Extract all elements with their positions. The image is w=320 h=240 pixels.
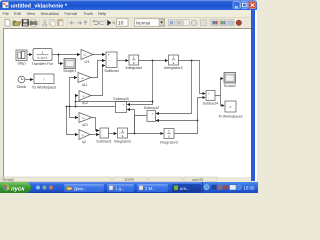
svg-text:-: - bbox=[102, 129, 103, 133]
block To Workspace bbox=[34, 74, 54, 84]
svg-text:t21: t21 bbox=[83, 54, 87, 57]
svg-text:1: 1 bbox=[133, 56, 135, 60]
svg-text:s: s bbox=[168, 134, 170, 138]
svg-text:Integrator2: Integrator2 bbox=[114, 140, 131, 144]
wire Subtract to Integrator bbox=[117, 60, 128, 62]
close button bbox=[249, 2, 256, 9]
svg-text:x: x bbox=[230, 105, 232, 109]
svg-text:+: + bbox=[123, 103, 125, 107]
new bbox=[5, 19, 10, 26]
transfer function block Transfer Fcn bbox=[33, 49, 52, 61]
normal dropdown bbox=[135, 19, 165, 26]
right icon cluster bbox=[169, 20, 175, 26]
svg-text:100%: 100% bbox=[124, 177, 135, 182]
wire bus B to q22 bbox=[67, 107, 78, 135]
scope Scope1 bbox=[64, 59, 76, 69]
svg-text:1: 1 bbox=[173, 56, 175, 60]
wire q11 to Subtract input 2 bbox=[91, 61, 105, 78]
sum block Subtract bbox=[106, 52, 117, 68]
block To Workspace1 bbox=[225, 101, 236, 112]
svg-text:untitled_vklachenie *: untitled_vklachenie * bbox=[11, 2, 68, 9]
svg-text:Help: Help bbox=[98, 11, 107, 16]
svg-text:-: - bbox=[152, 119, 153, 123]
task button 4 active bbox=[174, 186, 178, 191]
sum block Subtract2 flipped bbox=[147, 111, 156, 123]
svg-text:Format: Format bbox=[65, 11, 79, 16]
wire Subtract4 output branch to Scope2 bbox=[215, 79, 223, 96]
task button 2 bbox=[109, 186, 113, 191]
gain q21 bbox=[79, 113, 92, 123]
wire q21 to Subtract1 input 1 bbox=[92, 118, 99, 131]
scope Scope2 bbox=[224, 73, 236, 84]
svg-text:Subtract4: Subtract4 bbox=[203, 101, 218, 105]
svg-text:Subtract1: Subtract1 bbox=[96, 140, 111, 144]
stop bbox=[112, 21, 115, 24]
status bar details bbox=[1, 177, 217, 182]
svg-text:View: View bbox=[27, 11, 36, 16]
sep bbox=[67, 19, 69, 27]
tray icons bbox=[204, 185, 209, 190]
svg-text:Ready: Ready bbox=[3, 177, 15, 182]
svg-text:Subtract2: Subtract2 bbox=[144, 106, 159, 110]
gain q22 bbox=[79, 130, 90, 140]
start flag logo bbox=[3, 184, 10, 191]
svg-text:Tools: Tools bbox=[84, 11, 93, 16]
wire Clock to To Workspace bbox=[25, 79, 33, 81]
svg-text:q2: q2 bbox=[82, 140, 86, 144]
sep bbox=[105, 19, 107, 27]
wire Integrator1 output to Subtract4 input 1 bbox=[179, 61, 206, 94]
clock block Clock bbox=[18, 76, 25, 83]
nav arrows bbox=[70, 21, 75, 24]
svg-text:Integrator1: Integrator1 bbox=[164, 65, 183, 70]
quick launch icons bbox=[36, 186, 40, 190]
svg-text:Scope1: Scope1 bbox=[63, 68, 76, 73]
svg-text:1: 1 bbox=[42, 50, 44, 54]
svg-text:Integrator: Integrator bbox=[125, 65, 142, 70]
run bbox=[107, 20, 111, 26]
paste bbox=[58, 20, 63, 26]
svg-text:unt...: unt... bbox=[180, 186, 189, 191]
integrator block Integrator1 bbox=[169, 55, 179, 65]
integrator block Integrator3 bbox=[164, 129, 174, 139]
integrator block Integrator bbox=[129, 55, 139, 65]
wire Subtract3 output to left bus bbox=[67, 106, 116, 108]
svg-text:1: 1 bbox=[168, 129, 170, 133]
svg-text:2 M...: 2 M... bbox=[145, 186, 155, 191]
svg-text:q11: q11 bbox=[82, 83, 88, 87]
node junction x2d bbox=[134, 133, 136, 135]
integrator block Integrator2 bbox=[118, 128, 128, 138]
wire branch to To Workspace1 bbox=[221, 96, 225, 106]
svg-text:1 д...: 1 д... bbox=[115, 186, 124, 191]
wire bus A to q21 bbox=[70, 107, 78, 118]
gain t21 bbox=[81, 50, 93, 60]
wire x1 branch down to Subtract3 input 1 bbox=[127, 61, 152, 105]
sim time field bbox=[117, 19, 129, 26]
svg-text:Scope2: Scope2 bbox=[224, 84, 236, 88]
svg-text:пуск: пуск bbox=[11, 186, 25, 192]
wire vertical bus to q12 bbox=[76, 96, 78, 107]
task button 1 bbox=[67, 186, 73, 190]
node bus A junction bbox=[69, 106, 71, 108]
svg-text:Simulation: Simulation bbox=[41, 11, 60, 16]
sum block Subtract1 bbox=[100, 128, 109, 138]
svg-text:q21: q21 bbox=[82, 123, 88, 127]
svg-text:Transfer Fcn: Transfer Fcn bbox=[32, 61, 54, 66]
wire gain t21 to Subtract bbox=[93, 54, 105, 56]
maximize button bbox=[241, 2, 248, 9]
wire q22 to Subtract1 input 2 bbox=[90, 134, 99, 136]
node junction x2 right bbox=[197, 120, 199, 122]
svg-text:+: + bbox=[108, 53, 110, 57]
wire branch to Scope1 bbox=[59, 55, 63, 64]
sum block Subtract4 bbox=[206, 91, 215, 101]
wire Integrator2 out up to Subtract3 input 2 bbox=[127, 110, 134, 134]
svg-text:t: t bbox=[44, 77, 45, 81]
cut bbox=[44, 20, 47, 25]
taskbar details bbox=[3, 184, 255, 192]
sep bbox=[38, 19, 40, 27]
toolbar icons bbox=[5, 19, 242, 27]
gain q11 bbox=[78, 73, 91, 83]
wire Integrator3 output up to Subtract4 input 2 bbox=[174, 98, 205, 134]
menu texts bbox=[3, 11, 108, 16]
svg-text:Доку...: Доку... bbox=[74, 186, 86, 191]
svg-text:+: + bbox=[208, 92, 210, 96]
wire x2 to Subtract2 input 2 bbox=[156, 120, 198, 122]
svg-text:Clock: Clock bbox=[17, 84, 27, 89]
copy bbox=[50, 20, 54, 25]
wire Integrator to Integrator1 bbox=[139, 60, 168, 62]
svg-text:-: - bbox=[102, 134, 103, 138]
wire x1 to Subtract2 input 1 bbox=[156, 61, 192, 114]
wire Step to Transfer Fcn bbox=[27, 54, 32, 56]
svg-text:10: 10 bbox=[118, 21, 124, 27]
task button 3 bbox=[139, 186, 143, 191]
sum block Subtract3 flipped bbox=[116, 102, 127, 113]
svg-text:-: - bbox=[123, 108, 124, 112]
svg-text:Subtract3: Subtract3 bbox=[113, 97, 128, 101]
wire Subtract2 output to Integrator2 wire junction bbox=[135, 116, 148, 133]
title bar icon bbox=[3, 2, 9, 8]
svg-text:+: + bbox=[152, 112, 154, 116]
minimize button bbox=[233, 2, 240, 9]
undo circle bbox=[94, 21, 99, 24]
svg-text:File: File bbox=[3, 11, 10, 16]
svg-text:16:50: 16:50 bbox=[244, 185, 256, 190]
svg-text:0.1s+1: 0.1s+1 bbox=[38, 56, 48, 60]
node junction on TF output bbox=[58, 54, 60, 56]
svg-text:t21: t21 bbox=[85, 60, 90, 64]
svg-text:To Workspace: To Workspace bbox=[32, 85, 57, 90]
wire Subtract1 to Integrator2 bbox=[109, 133, 117, 135]
svg-text:Normal: Normal bbox=[136, 20, 150, 25]
sep bbox=[90, 19, 92, 27]
node junction x1 right bbox=[191, 60, 193, 62]
svg-text:1: 1 bbox=[122, 129, 124, 133]
wire x1 bus across to left at y=101.5 bbox=[76, 101, 153, 103]
svg-text:Edit: Edit bbox=[14, 11, 22, 16]
svg-text:Step: Step bbox=[17, 61, 25, 66]
wire Integrator2 to Integrator3 bbox=[128, 133, 164, 135]
wire q12 to Subtract input 3 bbox=[91, 66, 105, 96]
print bbox=[30, 21, 37, 25]
wire Transfer Fcn to gain t21 bbox=[52, 54, 80, 56]
svg-text:Subtract: Subtract bbox=[104, 68, 119, 73]
svg-text:To Workspace1: To Workspace1 bbox=[218, 115, 243, 119]
svg-text:s: s bbox=[122, 134, 124, 138]
open bbox=[13, 21, 21, 25]
step source block Step bbox=[16, 50, 27, 61]
node x1 junction bbox=[152, 60, 154, 62]
svg-text:-: - bbox=[208, 96, 209, 100]
svg-text:ode45: ode45 bbox=[192, 177, 204, 182]
save bbox=[22, 20, 29, 27]
wire bus A to q11 bbox=[70, 78, 77, 107]
gain q12 bbox=[79, 91, 91, 101]
svg-text:Integrator3: Integrator3 bbox=[160, 140, 177, 144]
